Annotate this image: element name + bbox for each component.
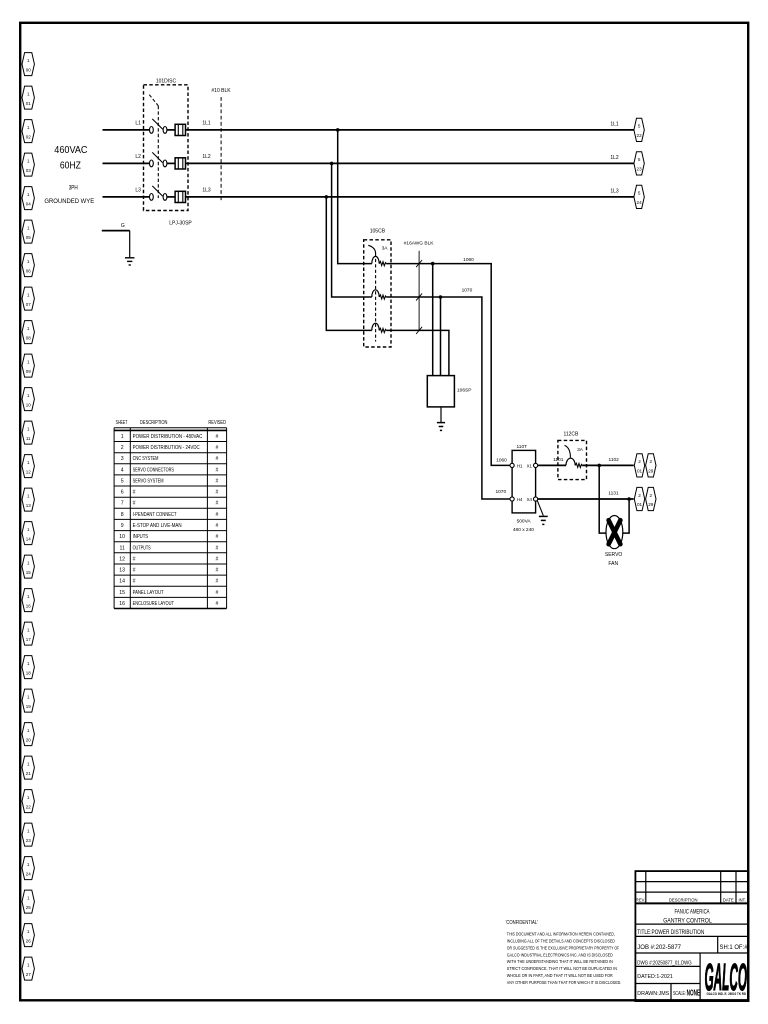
svg-text:FANUC AMERICA: FANUC AMERICA: [674, 908, 710, 915]
fuse LPJ-30SP pole L1: [175, 124, 185, 135]
svg-text:#: #: [216, 523, 219, 529]
svg-text:5: 5: [638, 124, 641, 129]
svg-text:01: 01: [26, 101, 32, 106]
circuit breaker 105CB dashed enclosure: [364, 240, 391, 347]
svg-text:WITH THE UNDERSTANDING THAT IT: WITH THE UNDERSTANDING THAT IT WILL BE R…: [507, 959, 613, 964]
svg-text:3A: 3A: [382, 245, 389, 251]
wire L2 incoming segment: [103, 162, 150, 164]
zone marker 1/18: [22, 656, 34, 679]
wire ground stub horizontal: [102, 230, 130, 232]
svg-text:POWER DISTRIBUTION - 24VDC: POWER DISTRIBUTION - 24VDC: [133, 445, 200, 451]
svg-text:JOB #:202-5877: JOB #:202-5877: [637, 945, 681, 951]
disconnect switch blade pole L3: [152, 186, 162, 196]
svg-text:#: #: [216, 545, 219, 551]
svg-text:21: 21: [26, 771, 32, 776]
zone marker 1/17: [22, 622, 34, 645]
sheet reference 5/22 (1L1): [634, 118, 644, 141]
zone marker 1/08: [22, 321, 34, 344]
disconnect switch blade pole L2: [152, 152, 162, 162]
wire tap from 1L3 down to 105CB pole 3: [326, 197, 372, 331]
svg-text:3A: 3A: [577, 447, 584, 453]
junction dot on wire 1070: [439, 295, 443, 299]
zone marker 1/07: [22, 287, 34, 310]
svg-text:1131: 1131: [608, 490, 619, 496]
svg-text:SERVO: SERVO: [605, 552, 623, 558]
ground symbol (source): [125, 258, 135, 265]
svg-text:SHEET: SHEET: [116, 420, 128, 426]
svg-text:1: 1: [121, 434, 124, 440]
svg-text:#: #: [216, 556, 219, 562]
svg-text:L1: L1: [135, 121, 141, 127]
svg-text:24: 24: [637, 200, 643, 205]
svg-text:#10 BLK: #10 BLK: [211, 88, 231, 94]
wire 1L1 from fuse to sheet-5 reference: [186, 129, 634, 131]
svg-text:03: 03: [26, 168, 32, 173]
wire 106SP to ground: [440, 407, 442, 422]
svg-text:10: 10: [119, 534, 125, 540]
disconnect 101DISC dashed enclosure: [144, 85, 189, 211]
zone marker 1/20: [22, 723, 34, 746]
zone marker 1/09: [22, 354, 34, 377]
sheet reference 5/24 (1L3): [634, 185, 644, 208]
svg-text:04: 04: [26, 201, 32, 206]
svg-text:REV.: REV.: [636, 897, 645, 902]
disconnect contact circle (load side) pole L1: [163, 126, 167, 133]
zone marker 1/16: [22, 589, 34, 612]
105CB pole 3 contact arc and trip element: [372, 323, 379, 330]
wire ground stub vertical: [129, 231, 131, 258]
wire 1060: 105CB pole1 to transformer H1: [386, 264, 511, 466]
disconnect operating handle diagonal: [149, 95, 158, 106]
svg-text:13: 13: [119, 568, 125, 574]
svg-text:DESCRIPTION: DESCRIPTION: [669, 897, 698, 902]
svg-text:1060: 1060: [496, 457, 507, 463]
svg-text:#: #: [133, 490, 136, 496]
svg-text:ANY OTHER PURPOSE THAN THAT FO: ANY OTHER PURPOSE THAN THAT FOR WHICH IT…: [507, 980, 622, 985]
svg-text:LPJ-30SP: LPJ-30SP: [169, 221, 192, 227]
svg-text:2: 2: [638, 459, 641, 464]
sheet reference 2/29 (1102): [646, 454, 656, 477]
svg-text:24: 24: [26, 871, 32, 876]
svg-text:DRAWN:JMS: DRAWN:JMS: [637, 991, 669, 997]
svg-text:INPUTS: INPUTS: [133, 534, 149, 540]
svg-text:2: 2: [650, 459, 653, 464]
fuse LPJ-30SP pole L2: [175, 158, 185, 169]
svg-text:06: 06: [26, 268, 32, 273]
circuit breaker 112CB dashed enclosure: [558, 440, 587, 479]
svg-text:DATED:1-2021: DATED:1-2021: [637, 974, 673, 980]
svg-text:OR SUGGESTED IS THE EXCLUSIVE: OR SUGGESTED IS THE EXCLUSIVE PROPRIETAR…: [507, 945, 619, 950]
svg-text:SCALE:: SCALE:: [673, 991, 686, 997]
surge protector 106SP box: [427, 376, 454, 407]
svg-text:12: 12: [26, 469, 32, 474]
wire 1102: 112CB to sheet-2 reference: [582, 464, 634, 466]
svg-text:17: 17: [26, 637, 32, 642]
sheet index table: [114, 428, 227, 609]
svg-text:18: 18: [26, 670, 32, 675]
junction dot on 1L2 at tap: [330, 162, 334, 166]
wire tap from 1L1 down to 105CB pole 1: [338, 130, 372, 264]
pin X1: [534, 463, 538, 467]
svg-text:L2: L2: [135, 154, 141, 160]
svg-text:110T: 110T: [517, 444, 528, 450]
disconnect contact circle (line side) pole L1: [150, 126, 154, 133]
svg-text:29: 29: [648, 469, 654, 474]
wire from disconnect to fuse pole L1: [167, 129, 175, 131]
112CB operating handle curve: [565, 445, 571, 457]
wire tap from 1L2 down to 105CB pole 2: [332, 163, 372, 297]
svg-text:WHOLE OR IN PART, AND THAT IT: WHOLE OR IN PART, AND THAT IT WILL NOT B…: [507, 973, 613, 978]
title block frame: [635, 871, 748, 1001]
svg-text:POWER DISTRIBUTION - 480VAC: POWER DISTRIBUTION - 480VAC: [133, 434, 203, 440]
svg-text:1L2: 1L2: [202, 154, 211, 160]
svg-text:#16AWG BLK: #16AWG BLK: [404, 240, 434, 246]
zone marker 1/26: [22, 924, 34, 947]
svg-text:GALCO IND. E. 26010 TK RD: GALCO IND. E. 26010 TK RD: [707, 992, 747, 996]
svg-text:4: 4: [121, 467, 124, 473]
wire drop 1070 to 106SP: [440, 297, 442, 376]
svg-text:1L2: 1L2: [610, 155, 619, 161]
svg-text:27: 27: [26, 972, 32, 977]
svg-text:2: 2: [638, 493, 641, 498]
zone marker 1/01: [22, 86, 34, 109]
svg-text:FAN: FAN: [608, 561, 618, 567]
svg-text:THIS DOCUMENT AND ALL INFORMAT: THIS DOCUMENT AND ALL INFORMATION HEREIN…: [507, 932, 615, 937]
svg-text:TITLE:POWER DISTRIBUTION: TITLE:POWER DISTRIBUTION: [637, 930, 704, 936]
wire 1L3 from fuse to sheet-5 reference: [186, 196, 634, 198]
wire from fan up to 1131 junction: [623, 499, 629, 533]
zone marker 1/21: [22, 756, 34, 779]
svg-text:#: #: [216, 478, 219, 484]
svg-text:23: 23: [26, 838, 32, 843]
disconnect contact circle (load side) pole L3: [163, 194, 167, 201]
zone marker 1/25: [22, 890, 34, 913]
svg-text:GANTRY CONTROL: GANTRY CONTROL: [663, 918, 712, 925]
svg-text:22: 22: [26, 804, 32, 809]
svg-text:SERVO SYSTEM: SERVO SYSTEM: [133, 478, 164, 484]
svg-text:15: 15: [26, 570, 32, 575]
svg-text:1070: 1070: [462, 287, 473, 293]
svg-text:SH:1 OF:#: SH:1 OF:#: [720, 945, 749, 951]
105CB linkage dashed line: [375, 254, 377, 342]
disconnect mechanical linkage dashed line: [157, 106, 159, 198]
svg-text:OUTPUTS: OUTPUTS: [133, 545, 151, 551]
zone marker 1/14: [22, 522, 34, 545]
zone marker 1/19: [22, 689, 34, 712]
svg-text:STRICT CONFIDENCE, THAT IT WIL: STRICT CONFIDENCE, THAT IT WILL NOT BE D…: [507, 966, 617, 971]
svg-text:GROUNDED WYE: GROUNDED WYE: [44, 198, 94, 205]
junction dot on wire 1102: [597, 464, 601, 468]
zone marker 1/13: [22, 488, 34, 511]
svg-text:16: 16: [26, 603, 32, 608]
svg-text:16: 16: [119, 601, 125, 607]
wire 1101: X1 to 112CB: [538, 464, 566, 466]
svg-text:07: 07: [26, 302, 32, 307]
svg-text:2: 2: [121, 445, 124, 451]
wire spec boundary #10 BLK dashed line: [220, 97, 222, 202]
zone marker 1/06: [22, 254, 34, 277]
wire spec line #16AWG BLK: [418, 251, 420, 331]
svg-text:PANEL LAYOUT: PANEL LAYOUT: [133, 590, 165, 596]
sheet reference 5/23 (1L2): [634, 152, 644, 175]
105CB pole 1 contact arc and trip element: [372, 256, 379, 263]
svg-text:2: 2: [650, 493, 653, 498]
wire spec slash mark: [416, 327, 422, 334]
svg-text:1L1: 1L1: [202, 121, 211, 127]
svg-text:3: 3: [121, 456, 124, 462]
disconnect switch blade pole L1: [152, 119, 162, 129]
svg-text:00: 00: [26, 67, 32, 72]
junction dot on wire 1131: [627, 497, 631, 501]
svg-text:GALCO INDUSTRIAL ELECTRONICS I: GALCO INDUSTRIAL ELECTRONICS INC. AND IS…: [507, 952, 613, 957]
svg-text:#: #: [133, 556, 136, 562]
svg-text:#: #: [133, 568, 136, 574]
wire from disconnect to fuse pole L3: [167, 196, 175, 198]
svg-text:22: 22: [637, 133, 643, 138]
svg-text:#: #: [216, 590, 219, 596]
svg-text:I-PENDANT CONNECT: I-PENDANT CONNECT: [133, 512, 178, 518]
svg-text:X1: X1: [527, 463, 533, 468]
105CB operating handle curve: [368, 245, 375, 253]
wire L3 incoming segment: [103, 196, 150, 198]
svg-text:X4: X4: [527, 497, 533, 502]
105CB pole 2 contact arc and trip element: [372, 290, 379, 297]
svg-text:NONE: NONE: [687, 988, 701, 997]
svg-text:05: 05: [26, 235, 32, 240]
svg-text:1L3: 1L3: [202, 188, 211, 194]
wire 1L2 from fuse to sheet-5 reference: [186, 162, 634, 164]
svg-text:#: #: [216, 445, 219, 451]
svg-text:H4: H4: [517, 497, 523, 502]
svg-text:02: 02: [26, 134, 32, 139]
svg-text:1L3: 1L3: [610, 188, 619, 194]
svg-text:500VA: 500VA: [517, 518, 532, 524]
svg-text:460VAC: 460VAC: [54, 145, 87, 156]
svg-text:6: 6: [121, 490, 124, 496]
motor symbol: servo fan: [606, 516, 623, 549]
svg-text:1060: 1060: [463, 257, 474, 263]
svg-text:DATE: DATE: [723, 897, 734, 902]
svg-text:#: #: [216, 467, 219, 473]
svg-text:480 x 240: 480 x 240: [513, 527, 534, 533]
svg-text:G: G: [121, 223, 125, 229]
svg-text:13: 13: [26, 503, 32, 508]
svg-text:#: #: [216, 490, 219, 496]
sheet reference 2/29 (1131): [646, 487, 656, 510]
svg-text:REVISED: REVISED: [208, 420, 226, 426]
svg-text:7: 7: [121, 501, 124, 507]
disconnect contact circle (line side) pole L2: [150, 160, 154, 167]
zone marker 1/23: [22, 823, 34, 846]
wire from 1102 junction down to fan: [599, 465, 606, 533]
svg-text:1102: 1102: [609, 457, 620, 463]
112CB contact arc and trip element: [566, 458, 575, 465]
svg-text:11: 11: [120, 545, 125, 551]
svg-text:01: 01: [637, 502, 643, 507]
wire spec slash mark: [416, 293, 422, 300]
svg-text:#: #: [216, 456, 219, 462]
svg-text:1L1: 1L1: [610, 121, 619, 127]
wire 1070: 105CB pole2 to transformer H4: [386, 297, 511, 499]
svg-text:105CB: 105CB: [370, 228, 386, 234]
zone marker 1/00: [22, 53, 34, 76]
zone marker 1/12: [22, 455, 34, 478]
svg-text:8: 8: [121, 512, 124, 518]
svg-text:112CB: 112CB: [563, 431, 579, 437]
svg-text:INCLUDING ALL OF THE DETAILS A: INCLUDING ALL OF THE DETAILS AND CONCEPT…: [507, 939, 616, 944]
svg-text:09: 09: [26, 369, 32, 374]
svg-text:26: 26: [26, 938, 32, 943]
svg-text:L3: L3: [135, 188, 141, 194]
svg-text:14: 14: [26, 536, 32, 541]
svg-text:01: 01: [637, 469, 643, 474]
svg-text:'CONFIDENTIAL': 'CONFIDENTIAL': [506, 920, 538, 926]
svg-text:ENCLOSURE LAYOUT: ENCLOSURE LAYOUT: [133, 601, 175, 607]
svg-text:CNC SYSTEM: CNC SYSTEM: [133, 456, 159, 462]
zone marker 1/10: [22, 388, 34, 411]
svg-text:DESCRIPTION: DESCRIPTION: [140, 420, 168, 426]
svg-text:12: 12: [119, 556, 125, 562]
svg-text:5: 5: [638, 191, 641, 196]
svg-text:SERVO CONNECTORS: SERVO CONNECTORS: [133, 467, 175, 473]
svg-text:60HZ: 60HZ: [60, 161, 81, 172]
wire drop 1060 to 106SP: [432, 264, 434, 376]
junction dot on 1L1 at tap: [336, 128, 340, 132]
zone marker 1/27: [22, 957, 34, 980]
zone marker 1/04: [22, 187, 34, 210]
ground symbol (transformer X4): [539, 516, 548, 524]
wire from disconnect to fuse pole L2: [167, 162, 175, 164]
wire X4 to ground diagonal: [537, 500, 543, 515]
pin H4: [510, 497, 514, 501]
pin H1: [510, 463, 514, 467]
pin X4: [534, 497, 538, 501]
svg-text:9: 9: [121, 523, 124, 529]
zone marker 1/24: [22, 857, 34, 880]
zone marker 1/05: [22, 220, 34, 243]
svg-text:08: 08: [26, 335, 32, 340]
svg-text:#: #: [216, 568, 219, 574]
svg-text:H1: H1: [517, 463, 523, 468]
svg-text:#: #: [216, 534, 219, 540]
svg-text:20: 20: [26, 737, 32, 742]
svg-text:5: 5: [638, 157, 641, 162]
disconnect contact circle (load side) pole L2: [163, 160, 167, 167]
svg-text:1070: 1070: [495, 489, 506, 495]
svg-text:#: #: [216, 501, 219, 507]
svg-text:15: 15: [119, 590, 125, 596]
svg-text:INT.: INT.: [738, 897, 745, 902]
svg-text:10: 10: [26, 402, 32, 407]
svg-text:23: 23: [637, 167, 643, 172]
junction dot on wire 1060: [431, 262, 435, 266]
svg-text:3PH: 3PH: [69, 185, 78, 192]
svg-text:#: #: [133, 579, 136, 585]
svg-text:19: 19: [26, 704, 32, 709]
svg-text:14: 14: [119, 579, 125, 585]
zone marker 1/03: [22, 153, 34, 176]
wire: 105CB pole3 to surge protector 106SP: [386, 330, 449, 375]
zone marker 1/11: [22, 421, 34, 444]
svg-text:5: 5: [121, 478, 124, 484]
wire spec slash mark: [416, 260, 422, 267]
fuse LPJ-30SP pole L3: [175, 191, 185, 202]
svg-text:#: #: [216, 579, 219, 585]
junction dot on 1L3 at tap: [325, 195, 329, 199]
svg-text:E-STOP AND LIVE-MAN: E-STOP AND LIVE-MAN: [133, 523, 182, 529]
sheet reference 2/01 (1131): [634, 487, 644, 510]
wire 1131: X4 to sheet-2 reference: [538, 498, 634, 500]
svg-text:#: #: [216, 434, 219, 440]
svg-text:106SP: 106SP: [457, 388, 471, 394]
transformer 110T box: [512, 450, 536, 513]
zone marker 1/02: [22, 120, 34, 143]
ground symbol (106SP): [437, 423, 445, 431]
svg-text:25: 25: [26, 905, 32, 910]
zone marker 1/15: [22, 555, 34, 578]
wire L1 incoming segment: [103, 129, 150, 131]
svg-text:DWG #:20250877_01.DWG: DWG #:20250877_01.DWG: [637, 961, 691, 967]
svg-text:29: 29: [648, 502, 654, 507]
sheet reference 2/01 (1102): [634, 454, 644, 477]
svg-text:11: 11: [26, 436, 31, 441]
svg-text:#: #: [216, 601, 219, 607]
svg-text:101DISC: 101DISC: [156, 78, 177, 84]
zone marker 1/22: [22, 790, 34, 813]
disconnect contact circle (line side) pole L3: [150, 194, 154, 201]
svg-text:#: #: [216, 512, 219, 518]
svg-text:#: #: [133, 501, 136, 507]
